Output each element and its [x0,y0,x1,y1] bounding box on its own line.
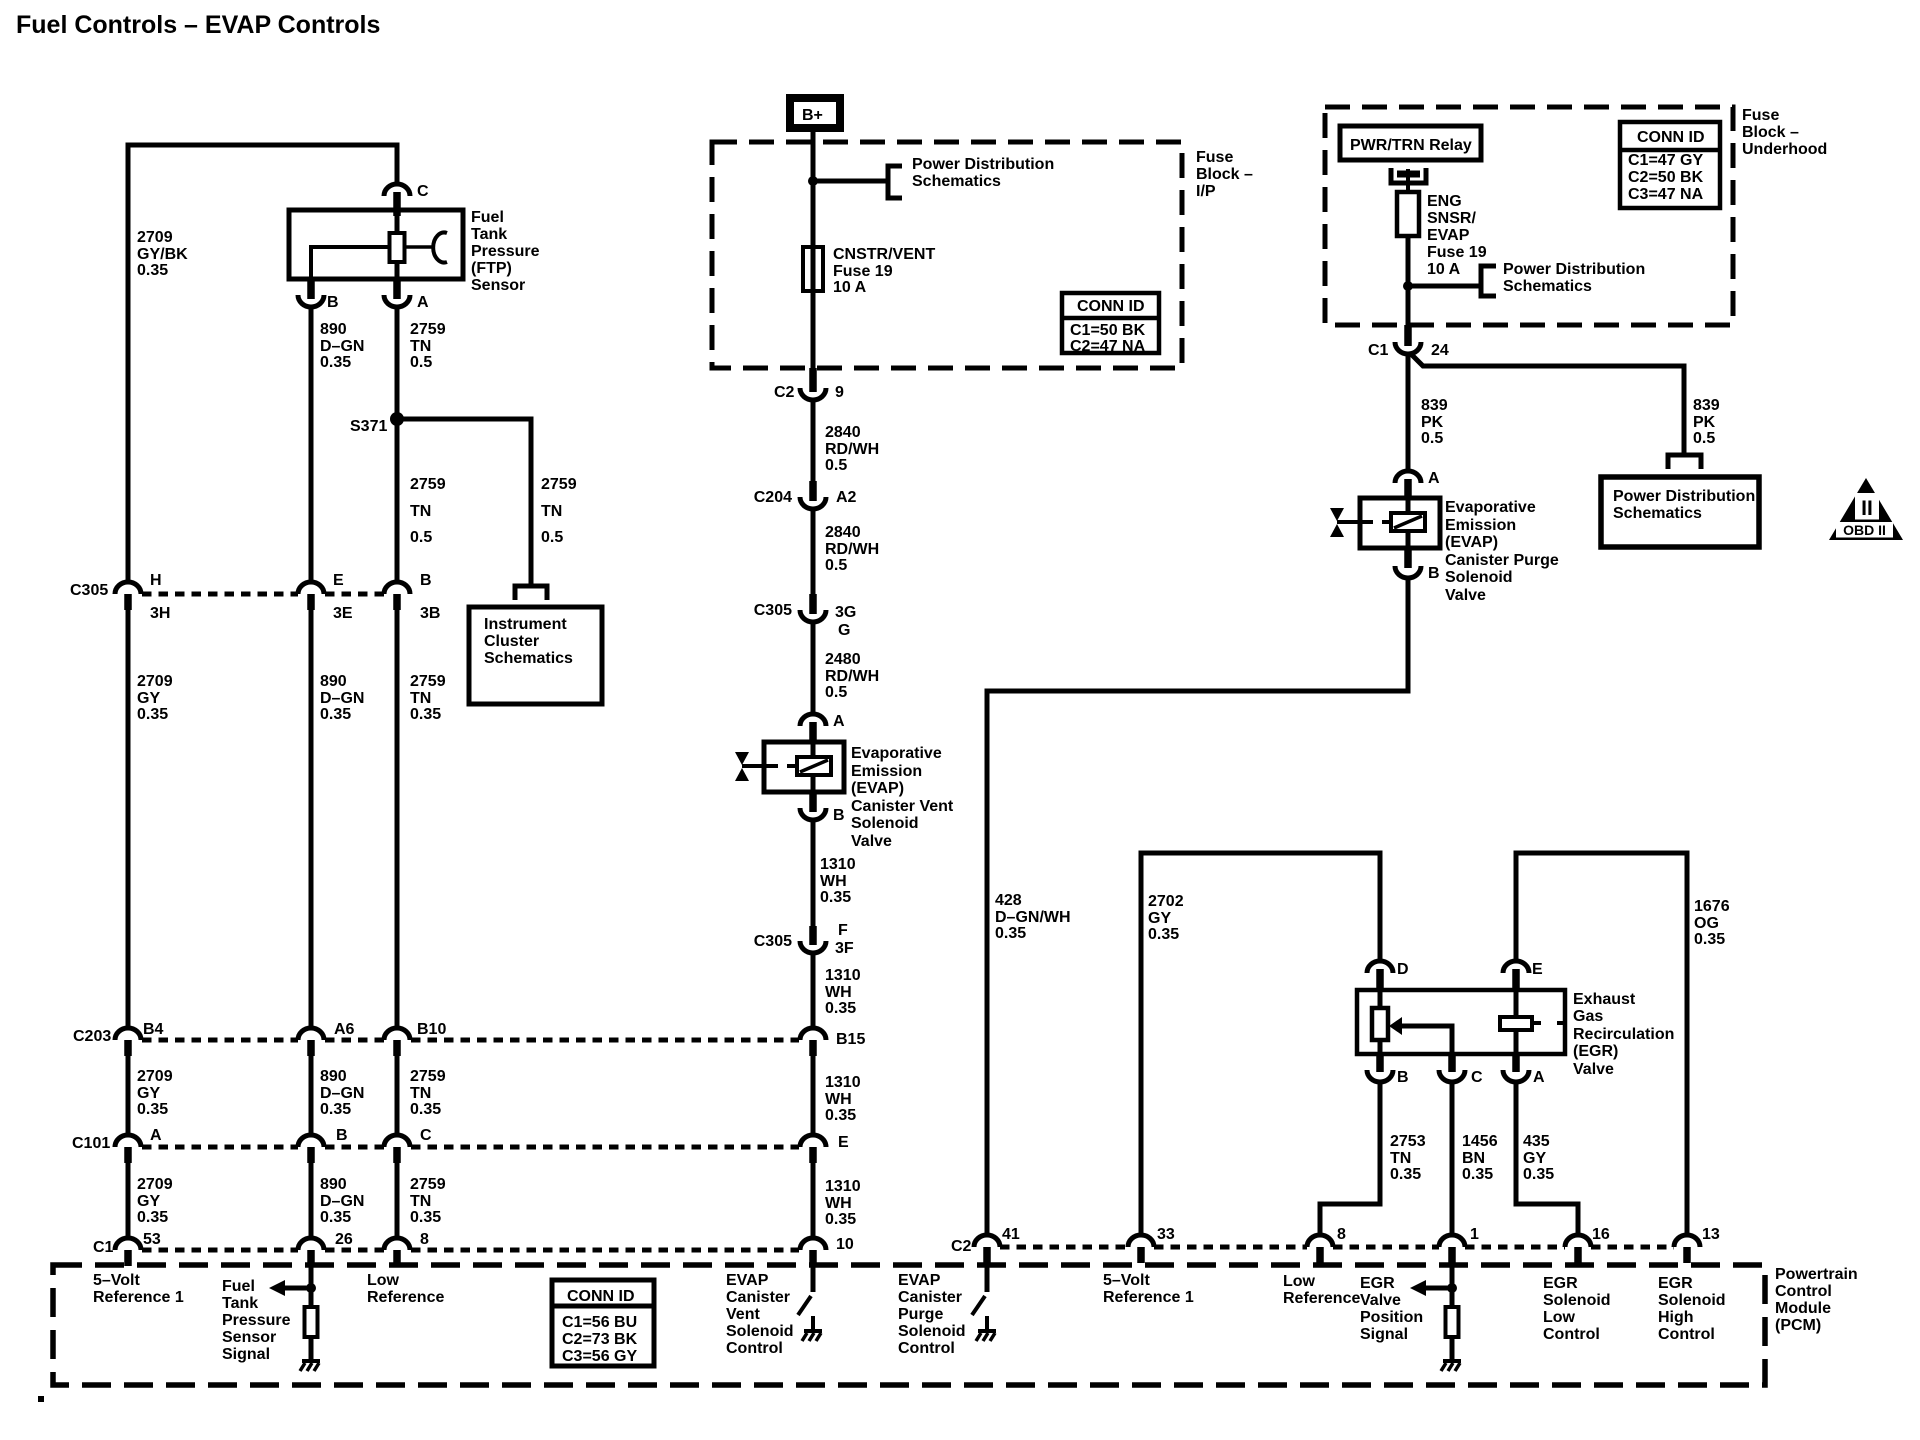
svg-text:C305: C305 [754,933,792,950]
svg-text:CNSTR/VENT: CNSTR/VENT [833,246,935,263]
svg-text:2840: 2840 [825,424,861,441]
driver switch for purge solenoid control [985,1265,990,1292]
svg-text:(PCM): (PCM) [1775,1317,1821,1334]
svg-text:ENG: ENG [1427,193,1462,210]
svg-text:Control: Control [1543,1326,1600,1343]
svg-text:Fuse: Fuse [1742,107,1779,124]
svg-text:Valve: Valve [1360,1292,1401,1309]
svg-text:Valve: Valve [1573,1061,1614,1078]
svg-text:RD/WH: RD/WH [825,441,879,458]
svg-text:Underhood: Underhood [1742,141,1827,158]
svg-text:Pressure: Pressure [471,243,540,260]
svg-text:Canister Vent: Canister Vent [851,798,954,815]
wire: 2753 TN 0.35 from EGR B to PCM pin 8 [1320,1080,1380,1236]
resistor element inside FTP sensor [395,214,400,234]
svg-text:Exhaust: Exhaust [1573,991,1636,1008]
svg-text:Gas: Gas [1573,1008,1603,1025]
valve symbol (bowtie) of purge valve [1330,508,1344,521]
svg-text:1456: 1456 [1462,1133,1498,1150]
svg-text:C203: C203 [73,1028,111,1045]
connector C305 pin H [115,582,141,594]
fuse block I/P dashed box [712,142,1182,368]
svg-text:C101: C101 [72,1135,110,1152]
svg-text:890: 890 [320,673,347,690]
connector pin A of EVAP purge solenoid valve [1395,471,1421,483]
svg-text:C305: C305 [70,582,108,599]
svg-text:Schematics: Schematics [912,173,1001,190]
svg-text:0.35: 0.35 [410,1209,441,1226]
svg-text:RD/WH: RD/WH [825,541,879,558]
svg-text:E: E [333,572,344,589]
svg-text:839: 839 [1421,397,1448,414]
svg-text:C: C [417,183,429,200]
svg-text:C2: C2 [951,1238,972,1255]
svg-text:Block –: Block – [1196,166,1253,183]
CONN ID table (fuse block I/P) [1062,293,1159,353]
EVAP canister vent solenoid valve box [764,742,844,792]
wire: fuse output down [1406,236,1411,326]
svg-text:Control: Control [898,1340,955,1357]
wire: B+ feed down through fuse block [811,128,816,370]
connector C101 pin A [115,1135,141,1147]
node: junction to power distribution [1403,281,1413,291]
svg-text:0.5: 0.5 [825,557,847,574]
svg-text:C2=50 BK: C2=50 BK [1628,169,1704,186]
svg-text:Recirculation: Recirculation [1573,1026,1674,1043]
svg-text:E: E [838,1134,849,1151]
svg-text:Schematics: Schematics [484,650,573,667]
svg-text:Canister Purge: Canister Purge [1445,552,1559,569]
svg-text:2759: 2759 [410,1176,446,1193]
wire: 1310 WH 0.35 to C101 E [811,1055,816,1135]
svg-text:Solenoid: Solenoid [1658,1292,1726,1309]
svg-text:OG: OG [1694,915,1719,932]
svg-text:Solenoid: Solenoid [726,1323,794,1340]
wire: 1456 BN 0.35 from EGR C to PCM pin 1 [1450,1080,1455,1236]
PWR/TRN relay box [1340,126,1481,160]
wire: pin 26 sense network inside PCM [309,1265,314,1308]
svg-text:2759: 2759 [410,476,446,493]
wire: 2480 RD/WH 0.5 to vent valve [811,620,816,714]
svg-text:Fuse: Fuse [1196,149,1233,166]
node: junction on pin 26 wire [306,1283,316,1293]
valve symbol (bowtie) of vent valve [735,752,749,765]
svg-text:13: 13 [1702,1226,1720,1243]
svg-text:TN: TN [410,1085,431,1102]
connector C1 pin 24 (fuse block underhood) [1404,325,1412,346]
svg-text:C: C [1471,1069,1483,1086]
svg-text:Solenoid: Solenoid [898,1323,966,1340]
connector C101 pin B [298,1135,324,1147]
svg-text:2709: 2709 [137,1176,173,1193]
resistor (pull) on pin 1 [1446,1307,1459,1337]
svg-text:PWR/TRN Relay: PWR/TRN Relay [1350,137,1472,154]
connector pin B of EVAP purge solenoid valve [1404,548,1412,568]
connector C2 pin 13 [1674,1235,1700,1247]
connector C305 pin E [298,582,324,594]
wire: 2759 TN 0.35 from C101 C down to C1 8 [395,1162,400,1238]
connector pin C of EGR valve [1448,1054,1456,1072]
wire: 2709 GY 0.35 from C305 H down to C203 B4 [126,609,131,1028]
svg-text:Powertrain: Powertrain [1775,1266,1858,1283]
svg-text:Purge: Purge [898,1306,943,1323]
connector pin D of EGR valve [1367,961,1393,973]
svg-text:1310: 1310 [825,967,861,984]
ground (pin 26 network) [302,1359,320,1363]
svg-text:Power Distribution: Power Distribution [1613,488,1755,505]
svg-text:Reference: Reference [367,1289,444,1306]
svg-text:0.35: 0.35 [825,1107,856,1124]
svg-text:1676: 1676 [1694,898,1730,915]
svg-text:A6: A6 [334,1021,355,1038]
svg-text:EVAP: EVAP [898,1272,941,1289]
svg-text:Control: Control [726,1340,783,1357]
wire: 2840 RD/WH 0.5 to C204 [811,398,816,482]
OBD II symbol triangle [1829,478,1903,540]
svg-text:Tank: Tank [222,1295,258,1312]
connector C1 pin 8 [384,1238,410,1250]
svg-text:Instrument: Instrument [484,616,567,633]
off-page connector bracket (power distribution) [888,166,902,198]
wire: 2759 TN 0.35 from C203 B10 down to C101 C [395,1055,400,1135]
wire: 1310 WH 0.35 to C203 B15 [811,951,816,1028]
svg-text:CONN ID: CONN ID [567,1288,635,1305]
svg-text:PK: PK [1421,414,1444,431]
svg-text:2709: 2709 [137,229,173,246]
wire: pin 1 sense network inside PCM [1450,1265,1455,1308]
svg-text:0.35: 0.35 [1694,931,1725,948]
CONN ID table (fuse block underhood) [1620,122,1720,208]
svg-text:2759: 2759 [541,476,577,493]
svg-text:Solenoid: Solenoid [1445,569,1513,586]
svg-text:0.35: 0.35 [410,1101,441,1118]
svg-text:428: 428 [995,892,1022,909]
splice S371 [390,412,404,426]
svg-text:3F: 3F [835,940,854,957]
svg-text:0.35: 0.35 [320,706,351,723]
connector C203 pin A6 [298,1028,324,1040]
svg-text:890: 890 [320,321,347,338]
svg-text:B+: B+ [802,107,823,124]
svg-text:0.5: 0.5 [825,684,847,701]
connector C1 row dashed line [142,1248,298,1253]
connector C2 pin 1 [1439,1235,1465,1247]
svg-text:33: 33 [1157,1226,1175,1243]
svg-text:C: C [420,1127,432,1144]
connector C204 pin A2 [809,481,817,501]
solenoid coil of purge valve [1406,498,1411,514]
fuse ENG SNSR/EVAP Fuse 19 10 A [1397,192,1419,236]
svg-text:Emission: Emission [1445,517,1516,534]
svg-text:Emission: Emission [851,763,922,780]
svg-text:1310: 1310 [825,1178,861,1195]
wiper arm of FTP sensor (C-shaped arc) [405,245,433,249]
relay contact symbol [1391,168,1426,183]
svg-text:Cluster: Cluster [484,633,539,650]
svg-text:Fuel: Fuel [222,1278,255,1295]
svg-text:Schematics: Schematics [1503,278,1592,295]
connector C305 pin 3G [809,594,817,614]
svg-text:3G: 3G [835,604,856,621]
svg-text:9: 9 [835,384,844,401]
svg-text:2759: 2759 [410,673,446,690]
svg-text:2753: 2753 [1390,1133,1426,1150]
EVAP canister purge solenoid valve box [1360,498,1440,548]
svg-text:II: II [1861,497,1873,520]
exhaust gas recirculation EGR valve box [1357,990,1565,1054]
svg-text:0.35: 0.35 [825,1211,856,1228]
fuse block underhood dashed box [1325,107,1733,325]
svg-text:0.35: 0.35 [320,1209,351,1226]
svg-text:TN: TN [541,503,562,520]
EGR position sensor (potentiometer) [1378,990,1383,1009]
svg-text:Reference: Reference [1283,1290,1360,1307]
svg-text:A: A [833,713,845,730]
svg-text:TN: TN [410,503,431,520]
svg-text:Valve: Valve [851,833,892,850]
svg-text:0.35: 0.35 [320,354,351,371]
svg-text:Evaporative: Evaporative [851,745,942,762]
svg-text:Control: Control [1658,1326,1715,1343]
svg-text:Fuse 19: Fuse 19 [1427,244,1487,261]
wire: FTP sensor supply loop from PCM pin 53 up and over to connector C [128,145,397,582]
svg-text:0.5: 0.5 [410,529,432,546]
svg-text:3E: 3E [333,605,353,622]
connector C2 pin 41 [974,1235,1000,1247]
svg-text:Low: Low [1543,1309,1576,1326]
svg-text:Power Distribution: Power Distribution [912,156,1054,173]
wire: 1676 OG 0.35 from PCM pin 13 up to EGR pin E [1516,853,1687,1236]
svg-text:S371: S371 [350,418,387,435]
connector C305 pin B [384,582,410,594]
svg-text:D–GN: D–GN [320,1085,364,1102]
svg-text:TN: TN [1390,1150,1411,1167]
connector C305 pin 3F [809,926,817,945]
wire: branch to power distribution schematics [813,179,886,184]
svg-text:Sensor: Sensor [222,1329,276,1346]
wire: 428 D-GN/WH 0.35 from purge valve B to PCM pin 41 [987,576,1408,1236]
svg-text:(EVAP): (EVAP) [1445,534,1498,551]
connector C203 row dashed line [142,1038,298,1043]
svg-text:B: B [1428,565,1440,582]
svg-text:Reference 1: Reference 1 [1103,1289,1194,1306]
svg-text:C2=47 NA: C2=47 NA [1070,338,1146,355]
svg-text:C3=56 GY: C3=56 GY [562,1348,637,1365]
svg-text:C1: C1 [93,1239,114,1256]
solenoid coil of vent valve [811,742,816,758]
svg-text:CONN ID: CONN ID [1637,129,1705,146]
svg-text:0.5: 0.5 [1693,430,1715,447]
svg-text:53: 53 [143,1231,161,1248]
svg-text:E: E [1532,961,1543,978]
connector C2 pin 8 [1307,1235,1333,1247]
CONN ID table (PCM) [552,1280,654,1366]
svg-text:Low: Low [1283,1273,1316,1290]
svg-text:1310: 1310 [825,1074,861,1091]
ground (vent solenoid driver) [804,1329,822,1333]
svg-text:1310: 1310 [820,856,856,873]
svg-text:0.35: 0.35 [137,1101,168,1118]
battery feed B+ terminal box [790,98,840,128]
svg-text:Fuel Controls – EVAP Controls: Fuel Controls – EVAP Controls [16,11,380,39]
connector C203 pin B10 [384,1028,410,1040]
svg-text:A2: A2 [836,489,857,506]
svg-text:H: H [150,572,162,589]
svg-text:C1=47 GY: C1=47 GY [1628,152,1703,169]
svg-text:Schematics: Schematics [1613,505,1702,522]
power distribution schematics box [1601,477,1759,547]
svg-text:0.35: 0.35 [320,1101,351,1118]
svg-text:C2=73 BK: C2=73 BK [562,1331,638,1348]
stray period mark bottom left [38,1396,44,1402]
svg-text:0.5: 0.5 [541,529,563,546]
svg-text:(EVAP): (EVAP) [851,780,904,797]
svg-text:(EGR): (EGR) [1573,1043,1618,1060]
fuel tank pressure sensor FTP box [289,210,463,279]
svg-text:0.35: 0.35 [1148,926,1179,943]
svg-text:WH: WH [820,873,847,890]
svg-text:SNSR/: SNSR/ [1427,210,1476,227]
wire: 2759 TN 0.5 from pin A down to splice S371 [395,306,400,582]
svg-text:EGR: EGR [1360,1275,1395,1292]
wire: 890 D-GN 0.35 from C305 E down to C203 A6 [309,609,314,1028]
svg-text:2702: 2702 [1148,893,1184,910]
connector C2 row dashed line [1000,1245,1128,1250]
svg-text:GY: GY [137,1193,160,1210]
svg-text:2759: 2759 [410,1068,446,1085]
svg-text:Evaporative: Evaporative [1445,499,1536,516]
svg-text:C3=47 NA: C3=47 NA [1628,186,1704,203]
svg-text:0.5: 0.5 [825,457,847,474]
wire: 435 GY 0.35 from EGR A to PCM pin 16 [1516,1080,1578,1236]
svg-text:G: G [838,622,850,639]
svg-text:0.35: 0.35 [137,262,168,279]
svg-text:24: 24 [1431,342,1449,359]
connector pin B of FTP sensor [307,279,315,299]
svg-text:8: 8 [420,1231,429,1248]
svg-text:Signal: Signal [1360,1326,1408,1343]
svg-text:26: 26 [335,1231,353,1248]
svg-text:D–GN/WH: D–GN/WH [995,909,1071,926]
svg-text:Position: Position [1360,1309,1423,1326]
svg-text:0.35: 0.35 [1462,1166,1493,1183]
svg-text:A: A [1428,470,1440,487]
svg-text:D: D [1397,961,1409,978]
svg-text:3B: 3B [420,605,440,622]
svg-text:1: 1 [1470,1226,1479,1243]
svg-text:GY: GY [137,690,160,707]
svg-text:A: A [1533,1069,1545,1086]
wire: 839 PK 0.5 down to purge valve pin A [1406,352,1411,471]
driver switch for vent solenoid control [811,1265,816,1292]
svg-text:Fuel: Fuel [471,209,504,226]
connector C305 row dashed line [142,592,298,597]
svg-text:2840: 2840 [825,524,861,541]
wire: branch from S371 to instrument cluster [397,419,531,584]
svg-text:Low: Low [367,1272,400,1289]
svg-text:(FTP): (FTP) [471,260,512,277]
svg-text:C1=56 BU: C1=56 BU [562,1314,637,1331]
connector C203 pin B4 [115,1028,141,1040]
ground (purge solenoid driver) [978,1329,996,1333]
svg-text:0.35: 0.35 [137,706,168,723]
wire: 1310 WH 0.35 to C1 10 [811,1162,816,1238]
svg-text:D–GN: D–GN [320,1193,364,1210]
svg-text:0.35: 0.35 [820,889,851,906]
svg-text:Solenoid: Solenoid [1543,1292,1611,1309]
fuse CNSTR/VENT Fuse 19 10 A [803,247,823,291]
off-page connector bracket (power distribution) [1481,266,1496,296]
svg-text:B: B [327,294,339,311]
connector pin A of EGR valve [1512,1054,1520,1072]
svg-text:WH: WH [825,1195,852,1212]
svg-text:B: B [420,572,432,589]
svg-text:GY/BK: GY/BK [137,246,188,263]
svg-text:0.35: 0.35 [410,706,441,723]
wire: 2709 GY 0.35 from C203 B4 down to C101 A [126,1055,131,1135]
resistor (pull) on pin 26 [305,1307,318,1337]
svg-text:CONN ID: CONN ID [1077,298,1145,315]
svg-text:10: 10 [836,1236,854,1253]
svg-text:EGR: EGR [1658,1275,1693,1292]
svg-text:A: A [417,294,429,311]
svg-text:Power Distribution: Power Distribution [1503,261,1645,278]
svg-text:Module: Module [1775,1300,1831,1317]
svg-text:B: B [336,1127,348,1144]
svg-text:High: High [1658,1309,1694,1326]
wire: 2840 RD/WH 0.5 to C305 [811,507,816,595]
svg-text:B: B [1397,1069,1409,1086]
svg-text:OBD II: OBD II [1843,522,1886,538]
svg-text:0.5: 0.5 [410,354,432,371]
svg-text:TN: TN [410,1193,431,1210]
svg-text:Valve: Valve [1445,587,1486,604]
svg-text:890: 890 [320,1176,347,1193]
svg-text:C204: C204 [754,489,792,506]
svg-text:TN: TN [410,690,431,707]
connector C1 pin 26 [298,1238,324,1250]
svg-text:41: 41 [1002,1226,1020,1243]
connector pin A of FTP sensor [393,279,401,299]
svg-text:2759: 2759 [410,321,446,338]
connector C2 pin 9 (fuse block output) [809,368,817,392]
arrowhead pointing to signal label [269,1280,285,1296]
svg-text:Canister: Canister [898,1289,962,1306]
wire: 890 D-GN 0.35 from C101 B down to C1 26 [309,1162,314,1238]
svg-text:5–Volt: 5–Volt [1103,1272,1151,1289]
node: junction to power distribution [808,176,818,186]
connector pin B of EGR valve [1376,1054,1384,1072]
svg-text:C1=50 BK: C1=50 BK [1070,322,1146,339]
EGR solenoid coil [1514,990,1519,1018]
svg-text:Block –: Block – [1742,124,1799,141]
connector C203 pin B15 [800,1028,826,1040]
svg-text:B10: B10 [417,1021,446,1038]
EGR position wiper arrow [1389,1017,1402,1035]
connector pin E of EGR valve [1503,961,1529,973]
svg-text:10 A: 10 A [833,279,867,296]
svg-text:TN: TN [410,338,431,355]
arrowhead pointing to signal label [1410,1280,1426,1296]
connector pin A of EVAP vent solenoid valve [800,714,826,726]
svg-text:A: A [150,1127,162,1144]
svg-text:0.35: 0.35 [825,1000,856,1017]
svg-text:Reference 1: Reference 1 [93,1289,184,1306]
svg-text:16: 16 [1592,1226,1610,1243]
wire: 890 D-GN 0.35 from C203 A6 down to C101 B [309,1055,314,1135]
svg-text:0.35: 0.35 [995,925,1026,942]
svg-text:2709: 2709 [137,673,173,690]
